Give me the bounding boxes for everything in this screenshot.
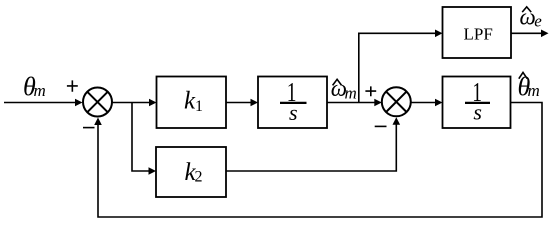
summing junction S2 [382, 87, 411, 116]
svg-text:LPF: LPF [464, 25, 493, 44]
plus sign at summing junction S1 [67, 80, 78, 91]
plus sign at summing junction S2 [365, 86, 376, 96]
wire k2 feedback to S2 [226, 117, 400, 171]
label theta_m [23, 72, 46, 101]
svg-text:s: s [473, 100, 482, 125]
gain block k2 [156, 147, 226, 197]
wire S1 to k1 [112, 99, 157, 107]
LPF block [443, 7, 512, 58]
integrator block 1/s (first) [258, 77, 327, 129]
wire S2 to integrator 2 [411, 99, 443, 107]
minus sign at S1 [83, 127, 95, 129]
minus sign at S2 [375, 125, 387, 127]
wire integrator1 to S2 [327, 99, 382, 107]
svg-text:2: 2 [195, 169, 203, 186]
label omega_e hat [520, 4, 543, 30]
svg-text:m: m [528, 81, 540, 100]
label omega_m hat [331, 76, 357, 103]
wire k1 to integrator 1 [226, 99, 258, 107]
wire branch down to k2 [132, 103, 156, 175]
summing junction S1 [83, 88, 112, 117]
wire input theta_m [4, 99, 83, 107]
svg-text:m: m [345, 84, 357, 103]
label theta_m hat [518, 72, 540, 101]
svg-text:m: m [34, 81, 46, 100]
wire branch up to LPF [359, 30, 443, 103]
wire LPF output [511, 30, 549, 38]
svg-text:e: e [534, 11, 542, 30]
wire outer feedback theta to S1 [94, 103, 542, 218]
svg-text:1: 1 [195, 98, 203, 115]
svg-text:s: s [289, 100, 298, 125]
gain block k1 [157, 77, 227, 129]
integrator block 1/s (second) [443, 77, 511, 129]
